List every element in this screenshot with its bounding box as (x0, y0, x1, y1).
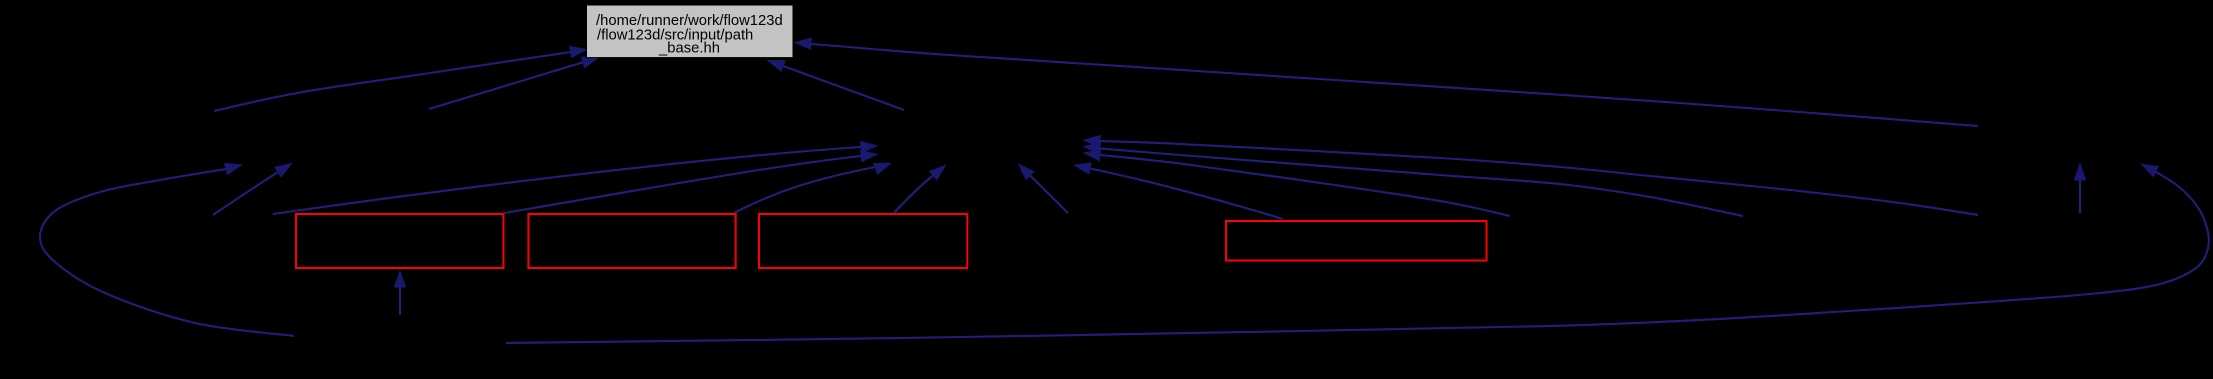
edge hidden node 5 to middle node (1019, 164, 1068, 213)
node /home/runner/work/flow123d/flow123d/src/input/path_base.hh (main grey box) (587, 5, 794, 58)
edge path_yaml.hh to path_base.hh (long right) (795, 38, 1978, 126)
edge bottom node to right upper node (big right curve) (506, 164, 2209, 343)
edge hidden node 8 to middle node (1084, 142, 1743, 216)
edge left red-neighbour node to middle node (273, 141, 877, 214)
svg-text:_base.hh: _base.hh (658, 41, 720, 57)
edge path_json.hh to path_base.hh (768, 61, 904, 111)
edge type_output.cc to reader_to_storage node (213, 163, 292, 215)
edge hidden node 7 to middle node (1084, 150, 1510, 217)
edge bottom node to red node 1 (vertical) (394, 271, 405, 315)
edge reader_to_storage.hh to path_base.hh (429, 57, 598, 109)
red node 1 (truncated dependency box) (296, 214, 504, 268)
edge hidden node 9 to middle node (1084, 135, 1978, 215)
edge hidden node 9 to right upper node (vertical) (2074, 164, 2085, 213)
edge red node 1 to middle node (504, 151, 877, 214)
edge red node 4 to middle node (1074, 163, 1283, 219)
edge red node 2 to middle node (734, 163, 891, 213)
edge path_base.cc to path_base.hh (left) (214, 47, 587, 112)
edge bottom node to left upper node (big left curve) (40, 164, 294, 336)
red node 2 (truncated dependency box) (528, 214, 735, 268)
red node 4 (truncated dependency box) (1226, 221, 1487, 261)
red node 3 (truncated dependency box) (759, 214, 967, 268)
edge red node 3 to middle node (894, 166, 946, 214)
